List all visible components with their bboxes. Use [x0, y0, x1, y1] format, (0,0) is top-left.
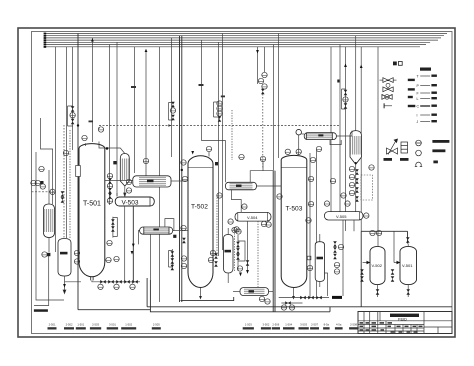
E-501 top pipe	[48, 170, 50, 204]
instrument x337 low b	[334, 269, 339, 274]
sewer label blob	[34, 309, 48, 312]
svg-text:1-501: 1-501	[77, 322, 84, 326]
horizontal exchanger E-506	[226, 182, 257, 190]
horizontal exchanger E-507 top	[304, 133, 336, 140]
signal line dashed top	[99, 126, 340, 130]
instrument x240 low	[237, 266, 242, 271]
instrument manifold r2	[349, 174, 354, 179]
V-505 bottom drop	[342, 220, 344, 296]
horizontal exchanger E-505	[133, 176, 171, 187]
svg-text:2-507: 2-507	[311, 322, 318, 326]
left riser step pipe	[41, 118, 53, 204]
valve clusters	[61, 89, 410, 300]
small column Z-501 left bottom	[58, 239, 71, 277]
instrument column side 2	[107, 183, 112, 188]
up arrow on x146	[145, 49, 148, 52]
instrument V-502 top 1	[370, 230, 375, 235]
svg-text:2-502: 2-502	[66, 322, 73, 326]
instrument far-left a	[31, 180, 36, 185]
right enclosure left side	[360, 231, 362, 306]
dark arrow on x133	[132, 244, 135, 248]
pipe drop x=331 to V-505	[330, 47, 332, 212]
enclosure box around T-502 bottom	[78, 231, 452, 311]
instrument on drop x265 a	[262, 72, 267, 77]
V-504 bottom drops	[247, 221, 249, 270]
E-503 bottom to V-503	[124, 186, 126, 197]
T-501 bottoms line	[92, 280, 140, 281]
E-507 right connect	[336, 131, 352, 136]
drain arrow 2	[63, 290, 66, 294]
instrument x333	[330, 178, 335, 183]
thick downcomer pair x=273	[272, 171, 274, 312]
header arrow markers	[44, 33, 47, 48]
pipe drop x=171.5 to T-502 top	[171, 38, 173, 157]
small column bottoms x=320	[319, 282, 321, 288]
pipe drop x=365	[360, 47, 362, 232]
dotted line x=217	[216, 195, 218, 256]
small column bottoms x=228	[227, 273, 229, 283]
tick label x201	[199, 84, 204, 86]
valve under V-503 b	[111, 226, 115, 231]
left border pipe	[36, 152, 64, 300]
E-504 left drop	[139, 231, 140, 245]
svg-text:V-501: V-501	[402, 263, 413, 268]
instrument right vessel	[369, 165, 374, 170]
signal dotted x=257.5	[262, 94, 264, 168]
stream label 4-501	[335, 322, 343, 329]
stream label 1-502	[121, 322, 136, 329]
square instrument right of T-503	[307, 256, 311, 260]
svg-text:V-502: V-502	[372, 263, 383, 268]
left column side valves	[61, 191, 65, 196]
instrument T-503 left nozzle	[277, 194, 282, 199]
valve cluster near x219	[218, 116, 222, 121]
svg-text:V-504: V-504	[247, 215, 258, 220]
up arrow on x345	[344, 64, 347, 68]
tick label x222	[221, 96, 225, 98]
main process line x=78	[77, 34, 79, 310]
title small row blobs	[360, 322, 423, 333]
E-508 pipes	[233, 291, 240, 293]
inline filter on x78	[76, 166, 81, 177]
E-505 connect left	[105, 180, 133, 182]
svg-text:T-503: T-503	[286, 206, 303, 213]
pipe drop x=146	[145, 50, 147, 177]
svg-text:1-504: 1-504	[285, 322, 292, 326]
instrument right of T-503 low	[307, 265, 312, 270]
E-504 bottom outlet	[149, 234, 151, 280]
legend globe valve row	[383, 83, 415, 91]
V-503 feed line	[116, 193, 118, 197]
instrument manifold r3	[349, 182, 354, 187]
enclosure line x78 bottom	[78, 309, 150, 311]
svg-text:8-5a: 8-5a	[324, 322, 330, 326]
V-503 outlet line a	[124, 206, 126, 282]
T-503 bottom manifold	[279, 297, 329, 299]
instrument T-503 upper	[308, 176, 313, 181]
instrument T-502 bottom a	[181, 256, 186, 261]
manifold line left	[65, 281, 82, 283]
valve cluster x263	[261, 89, 265, 94]
drum V-505	[324, 212, 363, 220]
instrument V-504 below 1	[228, 219, 233, 224]
pipe drop x=350.5 to right vessel	[355, 36, 357, 131]
valve cluster x345 a	[344, 90, 348, 95]
valve cluster T-502 bottom right a	[214, 253, 218, 258]
drain arrow x240	[239, 273, 242, 277]
instrument bubbles	[31, 72, 410, 310]
valve cluster T-502 bottom right b	[214, 261, 218, 266]
pipe drop x=273.5	[273, 45, 275, 171]
valve cluster near x172 b	[171, 115, 175, 120]
stream label 1-504	[283, 322, 295, 329]
valve stack x335 a	[333, 241, 337, 246]
pipe drop x=117 to V-503	[116, 42, 118, 196]
instrument V-505 left	[324, 201, 329, 206]
T-503 bottoms arrow	[292, 296, 295, 300]
stream label 2-508	[349, 322, 358, 329]
dashed arrowhead at x170	[168, 124, 171, 127]
instrument x343	[341, 193, 346, 198]
V-502 inlet arrow pipe	[363, 262, 370, 264]
legend control valve symbol	[384, 139, 398, 161]
V-502 side valves	[360, 269, 364, 274]
vertical exchanger E-501 left	[44, 204, 55, 238]
column T-501	[79, 144, 105, 281]
pipe drop x=340	[339, 45, 341, 212]
V-502 top feed	[377, 231, 379, 246]
legend trap symbol	[400, 142, 409, 161]
bypass bracket under V-503	[113, 217, 117, 238]
instrument PI left	[40, 184, 45, 189]
svg-text:2-503: 2-503	[92, 322, 99, 326]
instrument T-502 top flag	[181, 160, 186, 165]
left inner dashed drop	[69, 130, 71, 238]
E-501 bottom pipe	[48, 238, 50, 253]
stream label 2-501	[48, 322, 57, 329]
instrument x234 top a	[232, 227, 237, 232]
enclosure line A	[181, 297, 234, 301]
pipe drop x=159.5	[159, 47, 161, 302]
big box line y=170.7	[250, 171, 274, 183]
utility header line 1	[46, 33, 447, 35]
bubble stub T-502	[208, 152, 210, 157]
dark valve below E-504 right	[182, 238, 186, 243]
svg-text:F: F	[417, 92, 419, 96]
pipe drop x=134.4	[133, 47, 135, 173]
tick label x134	[131, 86, 136, 88]
drum V-504	[235, 212, 271, 221]
junction dot T-501 dome	[106, 147, 109, 150]
instrument T-502 bottom d	[208, 257, 213, 262]
valve manifold right col	[355, 169, 359, 174]
valve under V-503 a	[111, 219, 115, 224]
instrument column side 4	[107, 198, 112, 203]
right enclosure top pipe	[361, 230, 407, 232]
pipe drop x=345.5	[345, 47, 347, 231]
legend ball valve row	[382, 95, 413, 100]
E-508 right connect	[269, 291, 274, 293]
svg-text:V-505: V-505	[336, 214, 347, 219]
instrument T-503 top a	[285, 149, 290, 154]
instrument column side 1	[107, 173, 112, 178]
T-503 bottom manifold valves	[300, 296, 306, 300]
instrument V-504 right	[242, 204, 247, 209]
svg-text:3-502: 3-502	[262, 322, 269, 326]
column T-503	[281, 155, 307, 287]
valve cluster T-502 bottom left c	[171, 265, 175, 270]
instrument T-501 top	[82, 135, 87, 140]
svg-text:2-508: 2-508	[350, 322, 357, 326]
instrument manifold r1	[349, 166, 354, 171]
utility arrow near T-501 bottom	[131, 251, 134, 255]
instrument T-502 upper	[182, 176, 187, 181]
instrument above box	[260, 156, 265, 161]
instrument T-503 top b	[296, 149, 301, 154]
instrument T-502 side	[217, 193, 222, 198]
instrument on drop x265 c	[262, 84, 267, 89]
instrument manifold bottom 1	[98, 284, 103, 289]
up arrow on x364	[360, 65, 363, 69]
T-502 overhead line	[202, 141, 226, 183]
valve cluster T-502 bottom left b	[171, 258, 175, 263]
enclosure bottom joining line	[329, 307, 331, 312]
up arrow on x92	[91, 38, 94, 41]
horizontal exchanger E-508 bottom	[240, 288, 269, 296]
svg-text:2-505: 2-505	[153, 322, 160, 326]
utility header line 6	[46, 44, 426, 46]
V-502 feed arrow	[367, 261, 371, 264]
bottom manifold group T-501	[63, 276, 140, 294]
pipe drop x=265	[264, 47, 266, 72]
column T-501 side valve	[108, 178, 112, 183]
enclosure line B	[146, 278, 148, 307]
V-502 bottom pipe	[377, 285, 379, 297]
junction dot x78 y125	[77, 124, 79, 126]
dark fitting left sewer	[47, 253, 50, 256]
left pipe to sewer with arrow	[34, 256, 49, 306]
title text line1	[390, 314, 419, 317]
dark square fitting near T-502	[215, 162, 218, 165]
valve x=238 c	[236, 254, 240, 259]
stream label 2-502	[64, 322, 74, 329]
arrow on V-504 drop	[246, 270, 249, 274]
stream label 2-507	[310, 322, 319, 329]
pipe drop x=218.6	[218, 42, 220, 256]
column T-502	[188, 156, 213, 288]
tick label x92	[89, 121, 94, 123]
instrument column side 3	[108, 188, 112, 193]
V-501 drain valve	[406, 289, 410, 294]
T-501 overhead to E-503	[99, 142, 125, 154]
svg-text:2-506: 2-506	[272, 322, 279, 326]
bracket on left riser	[68, 106, 73, 126]
instrument T-503 side	[308, 201, 313, 206]
dotted drop below V-504	[257, 221, 259, 287]
bypass bracket	[238, 241, 245, 261]
instrument x238 top b	[236, 229, 241, 234]
drum V-501	[400, 246, 417, 284]
inner border frame	[32, 32, 453, 334]
T-503 bottoms pipe	[293, 288, 295, 296]
instrument on drop x265 b	[258, 78, 263, 83]
pipe drop x=278.5 to T-503 top	[278, 34, 280, 159]
instrument under V-503	[107, 240, 112, 245]
bottom stream labels	[48, 322, 359, 329]
svg-text:L: L	[417, 97, 419, 101]
utility header line 2	[46, 35, 444, 37]
pipe drop x=201.5	[201, 40, 203, 141]
signal line dashed left	[32, 191, 56, 193]
bracket near x219	[214, 102, 220, 117]
V-502 drain valve	[376, 289, 380, 294]
instrument E-506 top	[239, 154, 244, 159]
pipe drop x=257.5	[257, 47, 259, 84]
instrument pump E-508 a	[259, 296, 264, 301]
stream label 3-503	[299, 322, 309, 329]
pipe drop x=55.5	[55, 47, 57, 252]
bracket T-502 bottom left	[169, 249, 173, 269]
stream label 2-503	[90, 322, 101, 329]
stream label 1-503	[243, 322, 254, 329]
dashed instrument box	[361, 175, 373, 200]
manifold left leg	[64, 276, 66, 293]
pipe drop x=109.5	[109, 45, 111, 206]
bottom manifold valves	[100, 280, 106, 284]
instrument V-503 side 2	[126, 188, 131, 193]
svg-text:T-502: T-502	[191, 204, 208, 211]
valve on V-504 drop	[246, 260, 250, 265]
reflux drum V-503	[115, 197, 154, 206]
svg-text:3-503: 3-503	[300, 322, 307, 326]
arrow under small column	[63, 284, 66, 288]
outer border frame	[18, 28, 455, 337]
pipe drop x=222.5	[222, 34, 224, 251]
instrument lower manifold b	[289, 305, 294, 310]
stream label 8-501	[323, 322, 330, 329]
stream label 2-506	[272, 322, 280, 329]
heavy product line x=182	[181, 36, 183, 302]
stream label 2-505	[152, 322, 161, 329]
instrument header mid	[206, 146, 211, 151]
instrument x66	[63, 150, 68, 155]
pipe to V-501 inlet	[393, 231, 395, 262]
instrument T-501 bottom left a	[74, 250, 79, 255]
instrument cluster x171	[170, 108, 175, 113]
utility header line 5	[46, 41, 430, 43]
vertical exchanger E-503 right of T-501	[120, 154, 129, 187]
stream label 1-501	[76, 322, 86, 329]
column label blob	[317, 257, 324, 260]
instrument V-504 end a	[261, 221, 266, 226]
instrument FI left	[50, 189, 55, 194]
instrument V-504 end b	[266, 222, 271, 227]
V-501 feed arrow	[397, 261, 401, 264]
legend spec blind row	[384, 103, 415, 108]
V-503 outlet line b	[132, 206, 134, 282]
enclosure line B horizontal	[147, 306, 452, 308]
label blob narrow column T-502	[225, 250, 232, 253]
instrument V-502 top 2	[376, 230, 381, 235]
V-501 side valves	[391, 269, 395, 274]
instrument cluster x219 c	[217, 111, 222, 116]
utility header line 3	[46, 37, 441, 39]
instrument T-502 bottom b	[181, 263, 186, 268]
instrument manifold bottom 3	[130, 284, 135, 289]
pipe drop x=72.6	[72, 47, 74, 150]
valve x=238 b	[236, 248, 240, 253]
valve cluster x345 b	[344, 103, 348, 108]
pipe V-505 bottom to box	[70, 130, 394, 287]
drum V-502	[370, 246, 385, 284]
V-501 inlet arrow pipe	[394, 262, 400, 264]
valve cluster near x172 a	[171, 102, 175, 107]
legend line-code heading	[420, 68, 431, 71]
manifold line below cone	[355, 164, 357, 211]
valve cluster T-502 bottom left a	[171, 251, 175, 256]
valve lower manifold	[285, 301, 291, 305]
narrow column right of T-502	[224, 235, 234, 274]
svg-text:3-501: 3-501	[109, 322, 116, 326]
valve pair on left riser	[71, 106, 75, 111]
instrument LI left	[39, 166, 44, 171]
instrument T-502 bottom c	[210, 250, 215, 255]
instrument header right	[316, 146, 321, 151]
pipe drop x=316.6	[316, 150, 318, 296]
svg-text:I: I	[417, 114, 418, 118]
dark fitting left	[40, 181, 43, 184]
instrument T-501 bottom left b	[74, 259, 79, 264]
left riser x=66.6	[66, 47, 68, 238]
instrument T-503 shoulder	[310, 157, 315, 162]
instrument cluster x219 a	[217, 101, 222, 106]
instrument x341	[338, 244, 343, 249]
stream label 3-501	[107, 322, 118, 329]
pipe drop x=310	[309, 153, 311, 298]
T-502 bottoms arrow	[199, 296, 202, 300]
valve stack x335 c	[333, 254, 337, 259]
dark fitting above cluster	[173, 235, 176, 238]
instrument manifold bottom 2	[114, 284, 119, 289]
instrument flag T-501	[98, 127, 103, 132]
E-506 connect	[256, 185, 281, 187]
horizontal exchanger E-504	[140, 227, 173, 234]
legend line code rows	[417, 75, 437, 125]
stub to dome bubble	[85, 143, 87, 146]
utility header line 4	[46, 39, 438, 41]
instrument T-501 bottom right	[106, 257, 111, 262]
legend circle symbols	[415, 140, 450, 167]
thick downcomer pair x=275	[274, 171, 276, 312]
instrument V-504 below 2	[234, 227, 239, 232]
down arrow on x257	[256, 50, 259, 54]
narrow col top pipe T-503	[319, 234, 321, 242]
instrument V-505 top	[345, 201, 350, 206]
svg-text:2-501: 2-501	[49, 322, 56, 326]
E-507 bottom step	[330, 140, 341, 145]
dotted spec line x=234.5	[234, 228, 236, 271]
manifold continue	[99, 281, 137, 283]
dark square fitting near T-501	[113, 161, 116, 164]
svg-text:1-502: 1-502	[125, 322, 132, 326]
svg-text:P&ID: P&ID	[398, 317, 407, 321]
T-503 lower manifold	[281, 302, 302, 304]
svg-text:J: J	[417, 120, 419, 124]
valve V-501 top	[406, 237, 410, 242]
E-506 to V-504 step pipe	[231, 190, 241, 212]
valve x=238 a	[236, 242, 240, 247]
bracket x342	[342, 89, 346, 109]
